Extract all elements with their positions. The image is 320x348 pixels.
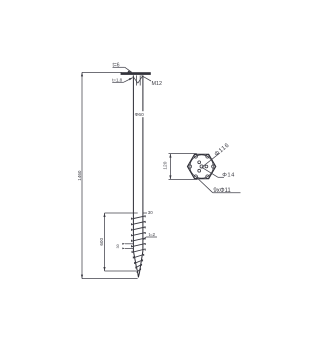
svg-text:M12: M12 xyxy=(152,81,163,87)
svg-text:Φ60: Φ60 xyxy=(135,112,144,118)
svg-text:600: 600 xyxy=(99,238,104,246)
svg-text:9xΦ11: 9xΦ11 xyxy=(213,188,231,194)
svg-text:Φ14: Φ14 xyxy=(222,173,235,179)
svg-text:30: 30 xyxy=(148,210,153,215)
svg-text:t=1.8: t=1.8 xyxy=(112,78,122,83)
svg-text:120: 120 xyxy=(162,161,168,169)
svg-text:1460: 1460 xyxy=(77,170,82,181)
svg-text:t=2: t=2 xyxy=(149,232,156,237)
svg-text:t=6: t=6 xyxy=(113,62,120,68)
svg-text:30: 30 xyxy=(116,244,120,248)
